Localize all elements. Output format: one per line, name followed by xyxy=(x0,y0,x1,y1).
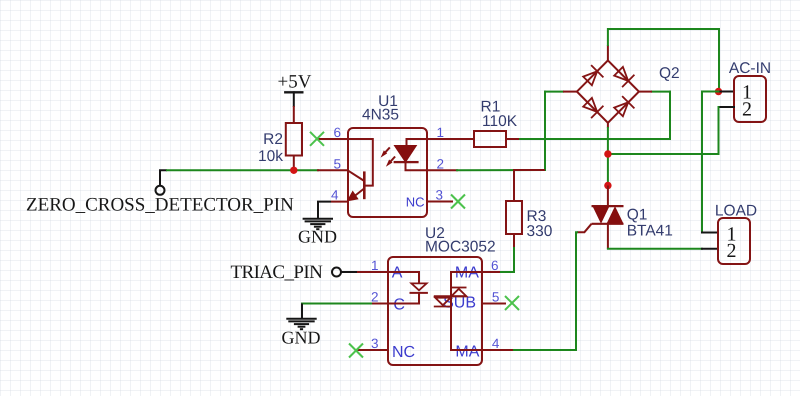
wire R1 to bridge right corner (horizontal) xyxy=(520,138,670,140)
connector TRIAC_PIN xyxy=(332,268,358,277)
LED light arrows inside U1 xyxy=(381,147,396,166)
LED inside U2 xyxy=(388,272,428,304)
pin name NC (U2) xyxy=(392,344,415,361)
diode D-bottomright of Q2 xyxy=(614,96,634,116)
pin number 1 (U2) xyxy=(371,258,379,273)
wire bridge bottom to Q1 xyxy=(607,128,609,186)
U2 pin 5 lead xyxy=(482,303,505,305)
U2 pin 3 lead xyxy=(357,349,388,351)
wire bridge right corner (vertical) xyxy=(669,92,671,139)
junction AC-IN pin 1 xyxy=(715,88,722,95)
svg-text:10k: 10k xyxy=(258,148,283,165)
wire bridge right corner stub xyxy=(652,91,670,93)
pin name SUB (U2) xyxy=(443,295,476,312)
svg-text:LOAD: LOAD xyxy=(715,203,757,220)
LOAD pin 1 stub xyxy=(702,232,718,234)
svg-text:3: 3 xyxy=(436,188,444,203)
pin number 2 (AC-IN) xyxy=(742,98,752,120)
svg-text:5: 5 xyxy=(492,290,500,305)
pin name C (U2) xyxy=(393,297,405,314)
label MOC3052 xyxy=(425,239,496,256)
pin number 6 (U2) xyxy=(491,258,499,273)
svg-text:Q1: Q1 xyxy=(627,207,648,224)
wire R3 to U2 pin 6 xyxy=(499,248,514,272)
label U1 xyxy=(378,93,398,110)
pin number 2 (U2) xyxy=(371,290,379,305)
AC-IN pin 2 stub xyxy=(719,106,735,108)
triac inside U2 xyxy=(434,272,482,350)
pin number 1 (LOAD) xyxy=(727,223,737,245)
diode D-bottomleft of Q2 xyxy=(583,98,603,118)
label R1 xyxy=(481,99,501,116)
pin number 3 (U1) xyxy=(436,188,444,203)
pin number 5 (U2) xyxy=(492,290,500,305)
label R2 xyxy=(263,131,283,148)
pin number 2 (LOAD) xyxy=(727,240,737,262)
U1 pin 2 lead xyxy=(427,169,457,171)
U2 pin 1 lead xyxy=(358,271,388,273)
GND label (U1) xyxy=(298,227,337,247)
op-amp U1 body (optocoupler 4N35) xyxy=(348,128,427,217)
svg-text:MA: MA xyxy=(455,344,479,361)
label R3 xyxy=(527,208,547,225)
wire zero-cross net to U1 pin 5 xyxy=(167,169,318,171)
svg-text:R2: R2 xyxy=(263,131,283,148)
power symbol +5V bar xyxy=(285,91,302,93)
svg-text:3: 3 xyxy=(371,336,379,351)
wire U2 pin 2 to ground xyxy=(301,304,303,320)
label AC-IN xyxy=(729,60,771,77)
net label ZERO_CROSS_DETECTOR_PIN xyxy=(26,195,294,216)
no-connect X on U2 pin 3 xyxy=(349,344,363,358)
wire AC-IN pin 2 to bridge bottom xyxy=(608,107,719,154)
U1 pin 3 lead xyxy=(427,201,452,203)
svg-text:4: 4 xyxy=(492,336,500,351)
svg-text:6: 6 xyxy=(333,125,341,140)
wire bridge top to AC-IN pin 1 xyxy=(608,29,719,92)
svg-text:2: 2 xyxy=(742,98,752,120)
U1 pin 1 lead to R1 xyxy=(427,138,474,140)
svg-text:ZERO_CROSS_DETECTOR_PIN: ZERO_CROSS_DETECTOR_PIN xyxy=(26,195,294,216)
transistor inside U1 xyxy=(348,139,373,201)
U2 pin 4 lead xyxy=(482,349,512,351)
pin number 1 (AC-IN) xyxy=(742,81,752,103)
AC-IN pin 1 stub xyxy=(719,91,735,93)
svg-text:1: 1 xyxy=(371,258,379,273)
LOAD pin 2 stub xyxy=(702,248,718,250)
connector ZERO_CROSS_DETECTOR_PIN xyxy=(156,170,168,195)
svg-text:110K: 110K xyxy=(482,113,518,130)
U2 pin 2 lead xyxy=(373,303,388,305)
pin number 2 (U1) xyxy=(437,157,445,172)
bridge rectifier Q2 diamond xyxy=(563,45,652,128)
svg-text:AC-IN: AC-IN xyxy=(729,60,771,77)
transistor Q1 triac BTA41 xyxy=(577,186,624,249)
svg-text:4N35: 4N35 xyxy=(362,106,399,123)
svg-text:2: 2 xyxy=(727,240,737,262)
resistor R3 xyxy=(506,170,545,248)
no-connect X on U1 pin 3 xyxy=(451,195,465,209)
svg-text:+5V: +5V xyxy=(278,72,312,93)
pin number 4 (U2) xyxy=(492,336,500,351)
connector LOAD xyxy=(718,218,750,264)
svg-text:GND: GND xyxy=(298,227,337,247)
label U2 xyxy=(425,225,445,242)
junction bridge bottom / AC-IN pin 2 xyxy=(604,150,611,157)
svg-text:5: 5 xyxy=(333,157,341,172)
no-connect X on U1 pin 6 xyxy=(310,132,324,146)
svg-text:BTA41: BTA41 xyxy=(627,223,673,240)
label 330 xyxy=(527,223,553,240)
U1 pin 5 lead xyxy=(318,169,348,171)
wire +5V to R2 xyxy=(293,92,295,106)
svg-text:1: 1 xyxy=(437,125,445,140)
LED inside U1 xyxy=(394,139,427,170)
junction R2/zero-cross xyxy=(290,167,297,174)
pin number 3 (U2) xyxy=(371,336,379,351)
no-connect X on U2 pin 5 xyxy=(505,296,519,310)
power symbol +5V label xyxy=(278,72,312,93)
wire Q1 gate to U2 pin 4 xyxy=(512,232,577,350)
svg-text:GND: GND xyxy=(282,328,321,348)
label 110K xyxy=(482,113,518,130)
U1 pin 6 lead xyxy=(317,138,348,140)
label Q1 xyxy=(627,207,648,224)
svg-text:4: 4 xyxy=(331,188,339,203)
diode D-topright of Q2 xyxy=(614,67,634,87)
svg-text:Q2: Q2 xyxy=(659,65,680,82)
label BTA41 xyxy=(627,223,673,240)
svg-text:6: 6 xyxy=(491,258,499,273)
svg-text:2: 2 xyxy=(371,290,379,305)
ground symbol (U1 pin 4) xyxy=(303,219,333,230)
label Q2 xyxy=(659,65,680,82)
pin name A (U2) xyxy=(392,264,403,281)
U2 pin 6 lead xyxy=(482,271,499,273)
wire GND to U2 pin 2 xyxy=(302,303,388,305)
resistor R1 xyxy=(474,131,520,147)
diode D-topleft of Q2 xyxy=(583,65,603,85)
net label TRIAC_PIN xyxy=(231,262,324,283)
pin number 1 (U1) xyxy=(437,125,445,140)
svg-text:TRIAC_PIN: TRIAC_PIN xyxy=(231,262,324,283)
label LOAD xyxy=(715,203,757,220)
pin name NC (U1 pin 3) xyxy=(406,195,425,210)
GND label (U2) xyxy=(282,328,321,348)
junction Q1 MT2 xyxy=(604,182,611,189)
svg-text:2: 2 xyxy=(437,157,445,172)
U1 pin 4 lead and wire to GND xyxy=(318,202,348,219)
svg-text:MOC3052: MOC3052 xyxy=(425,239,496,256)
wire Q1 to LOAD pin 2 xyxy=(608,248,702,250)
pin number 6 (U1) xyxy=(333,125,341,140)
pin number 5 (U1) xyxy=(333,157,341,172)
svg-text:C: C xyxy=(393,297,405,314)
ground symbol (U2 pin 2) xyxy=(286,319,316,330)
label 4N35 xyxy=(362,106,399,123)
resistor R2 xyxy=(286,106,302,170)
wire U1 pin 2 to R3/bridge xyxy=(457,169,545,171)
pin name MA top (U2) xyxy=(455,264,479,281)
svg-text:NC: NC xyxy=(392,344,415,361)
wire bridge left corner (vertical) xyxy=(544,92,546,170)
pin name MA bottom (U2) xyxy=(455,344,479,361)
op-amp U2 body (MOC3052) xyxy=(388,257,482,365)
svg-text:330: 330 xyxy=(527,223,553,240)
wire bridge left corner stub xyxy=(545,91,563,93)
label 10k xyxy=(258,148,283,165)
pin number 4 (U1) xyxy=(331,188,339,203)
svg-text:NC: NC xyxy=(406,195,425,210)
connector AC-IN xyxy=(734,76,766,122)
wire AC-IN pin 1 to LOAD pin 1 xyxy=(702,92,719,233)
